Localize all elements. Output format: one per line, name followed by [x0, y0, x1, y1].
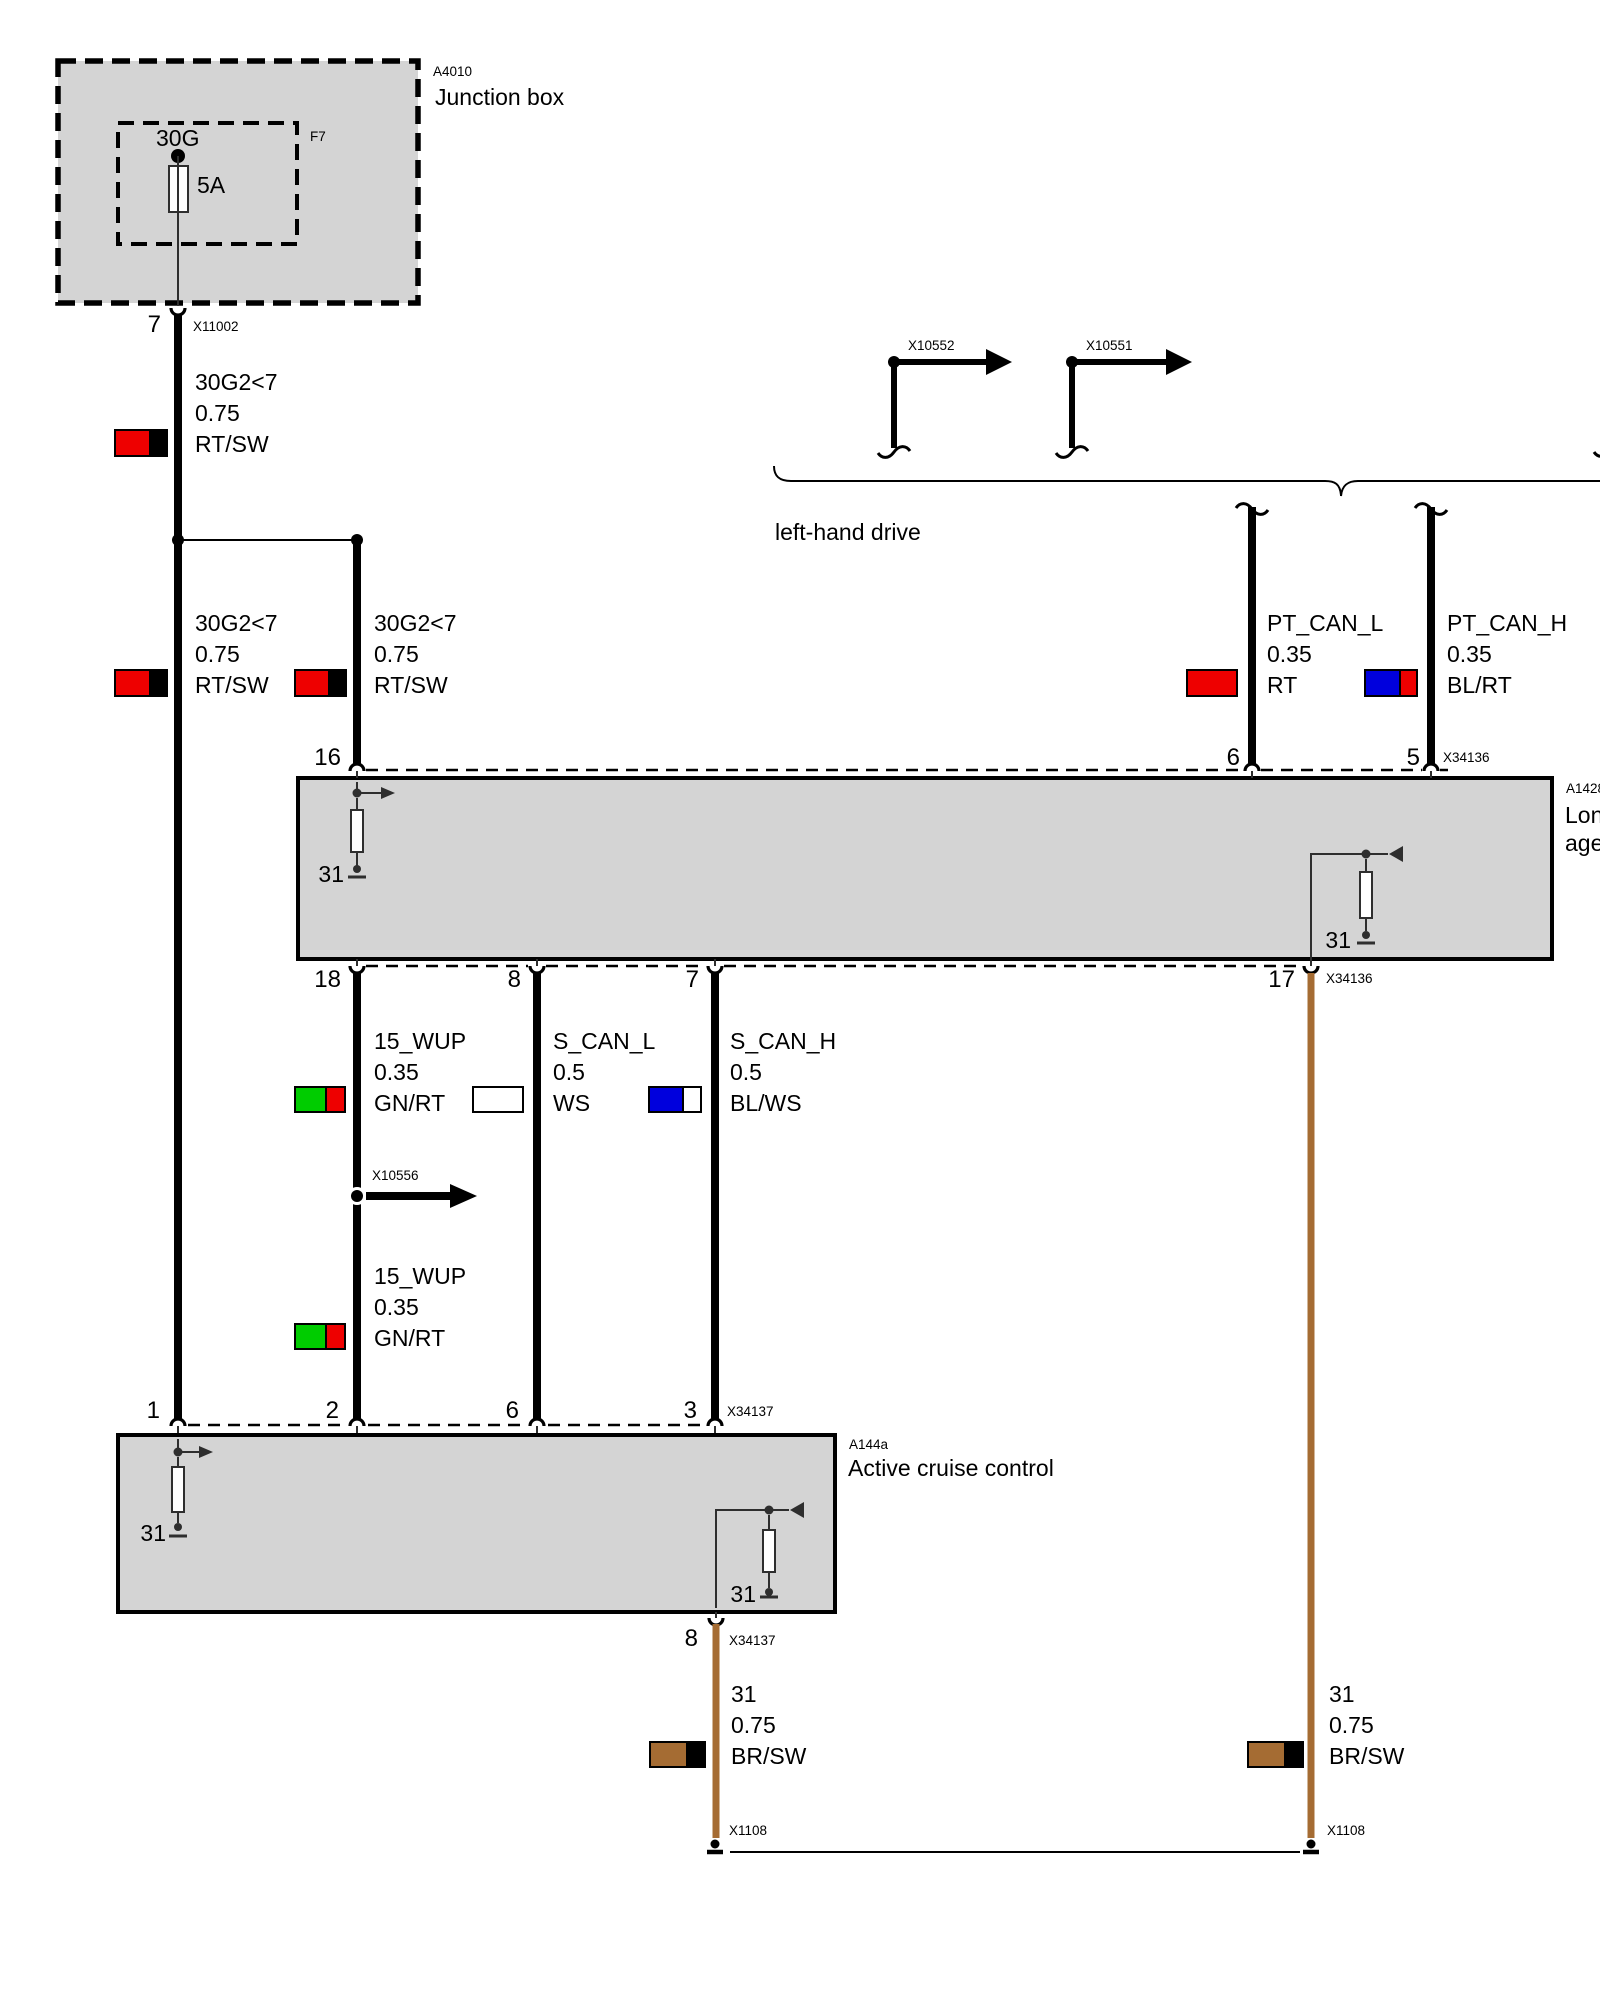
svg-text:A1428: A1428 [1566, 781, 1600, 796]
svg-text:30G2<7: 30G2<7 [374, 610, 457, 636]
svg-text:A144a: A144a [849, 1437, 889, 1452]
svg-text:S_CAN_H: S_CAN_H [730, 1028, 836, 1054]
svg-text:BL/WS: BL/WS [730, 1090, 802, 1116]
svg-text:X10551: X10551 [1086, 338, 1133, 353]
svg-text:X34137: X34137 [729, 1633, 776, 1648]
svg-text:Active cruise control: Active cruise control [848, 1455, 1054, 1481]
svg-text:2: 2 [326, 1397, 339, 1424]
svg-text:X34136: X34136 [1443, 750, 1490, 765]
svg-text:31: 31 [140, 1520, 166, 1546]
svg-text:31: 31 [318, 861, 344, 887]
svg-text:PT_CAN_L: PT_CAN_L [1267, 610, 1384, 636]
svg-text:0.75: 0.75 [195, 641, 240, 667]
svg-text:RT/SW: RT/SW [374, 672, 448, 698]
svg-text:30G2<7: 30G2<7 [195, 610, 278, 636]
svg-text:31: 31 [1329, 1681, 1355, 1707]
svg-text:PT_CAN_H: PT_CAN_H [1447, 610, 1567, 636]
svg-text:31: 31 [1325, 927, 1351, 953]
svg-text:8: 8 [508, 966, 521, 993]
svg-text:7: 7 [148, 311, 161, 338]
svg-text:17: 17 [1268, 966, 1295, 993]
svg-text:X10556: X10556 [372, 1168, 419, 1183]
svg-text:agement: agement [1565, 830, 1600, 856]
svg-text:0.35: 0.35 [374, 1059, 419, 1085]
svg-text:RT/SW: RT/SW [195, 431, 269, 457]
svg-text:A4010: A4010 [433, 64, 472, 79]
svg-text:BL/RT: BL/RT [1447, 672, 1512, 698]
svg-text:8: 8 [685, 1625, 698, 1652]
svg-text:0.75: 0.75 [1329, 1712, 1374, 1738]
svg-text:0.75: 0.75 [731, 1712, 776, 1738]
svg-text:31: 31 [730, 1581, 756, 1607]
svg-text:3: 3 [684, 1397, 697, 1424]
svg-text:6: 6 [1227, 744, 1240, 771]
svg-text:15_WUP: 15_WUP [374, 1263, 466, 1289]
svg-text:0.75: 0.75 [374, 641, 419, 667]
svg-text:Longitudinal dynamics man: Longitudinal dynamics man [1565, 802, 1600, 828]
svg-text:0.5: 0.5 [730, 1059, 762, 1085]
svg-text:0.35: 0.35 [1267, 641, 1312, 667]
svg-text:16: 16 [314, 744, 341, 771]
svg-text:X1108: X1108 [1327, 1823, 1365, 1838]
svg-text:Junction box: Junction box [435, 84, 565, 110]
svg-text:30G: 30G [156, 125, 199, 151]
svg-text:30G2<7: 30G2<7 [195, 369, 278, 395]
svg-text:left-hand drive: left-hand drive [775, 519, 921, 545]
svg-text:RT: RT [1267, 672, 1297, 698]
svg-text:F7: F7 [310, 129, 326, 144]
svg-text:S_CAN_L: S_CAN_L [553, 1028, 655, 1054]
svg-text:18: 18 [314, 966, 341, 993]
svg-text:X11002: X11002 [193, 319, 239, 334]
svg-text:X1108: X1108 [729, 1823, 767, 1838]
svg-text:6: 6 [506, 1397, 519, 1424]
svg-text:0.35: 0.35 [1447, 641, 1492, 667]
svg-text:GN/RT: GN/RT [374, 1090, 445, 1116]
svg-text:BR/SW: BR/SW [731, 1743, 807, 1769]
svg-text:BR/SW: BR/SW [1329, 1743, 1405, 1769]
svg-text:GN/RT: GN/RT [374, 1325, 445, 1351]
svg-text:5: 5 [1407, 744, 1420, 771]
svg-text:X34137: X34137 [727, 1404, 774, 1419]
svg-text:7: 7 [686, 966, 699, 993]
svg-text:15_WUP: 15_WUP [374, 1028, 466, 1054]
svg-text:X34136: X34136 [1326, 971, 1373, 986]
svg-text:WS: WS [553, 1090, 590, 1116]
svg-text:X10552: X10552 [908, 338, 955, 353]
svg-text:RT/SW: RT/SW [195, 672, 269, 698]
svg-text:0.35: 0.35 [374, 1294, 419, 1320]
svg-text:1: 1 [147, 1397, 160, 1424]
svg-text:5A: 5A [197, 172, 226, 198]
svg-text:31: 31 [731, 1681, 757, 1707]
svg-text:0.5: 0.5 [553, 1059, 585, 1085]
svg-text:0.75: 0.75 [195, 400, 240, 426]
